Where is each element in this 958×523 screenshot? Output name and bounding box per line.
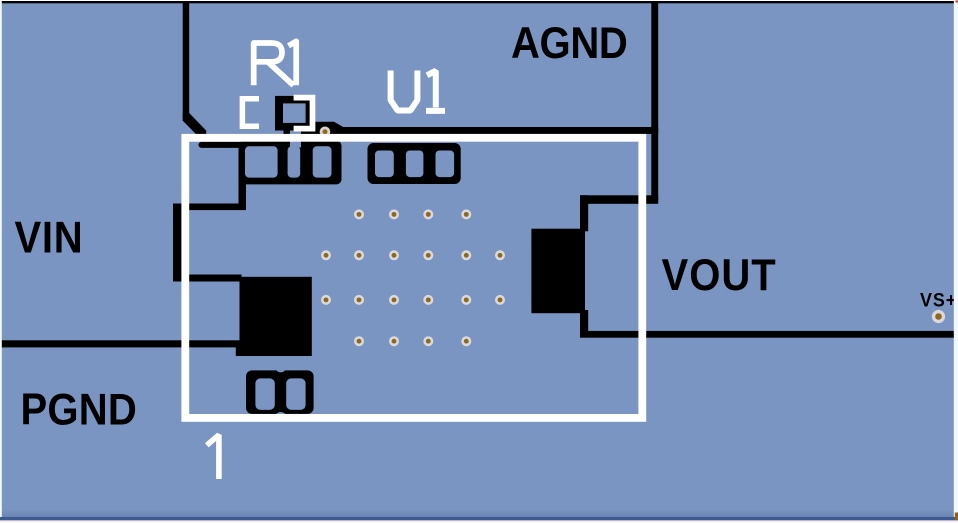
via V4 (thermal grid row 1): [461, 209, 471, 219]
via V19 (thermal grid row 4): [423, 336, 433, 346]
wire: staircase horizontal s5 (VIN channel bottom): [173, 275, 242, 282]
via V18 (thermal grid row 4): [389, 336, 399, 346]
wire: staircase vertical s4: [173, 204, 183, 282]
bottom pink strip: [0, 520, 958, 523]
wire: long gap line D (VIN / PGND separator): [0, 340, 244, 347]
svg-text:VOUT: VOUT: [662, 250, 777, 299]
bottom navy frame line: [0, 517, 958, 520]
svg-text:VIN: VIN: [15, 213, 84, 262]
wire: vertical trace gap B (right of AGND): [651, 2, 658, 201]
label U1 (silkscreen text): [391, 71, 445, 111]
via V14 (thermal grid row 3): [423, 295, 433, 305]
label 1 (silkscreen text, board corner): [207, 435, 219, 479]
wire: horizontal trace gap C (under AGND): [307, 127, 658, 134]
via V6 (thermal grid row 2): [354, 250, 364, 260]
via V1 (thermal grid row 1): [354, 209, 364, 219]
top black bar: [0, 1, 958, 3]
wire: vertical trace gap A (left of AGND): [183, 2, 190, 118]
bottom fade: [0, 509, 958, 518]
via V13 (thermal grid row 3): [389, 295, 399, 305]
wire: VOUT pad top outline: [580, 195, 588, 231]
via V7 (thermal grid row 2): [389, 250, 399, 260]
resistor R1 silkscreen bracket left: [242, 99, 259, 126]
resistor R1 silkscreen bracket right: [294, 98, 313, 129]
svg-text:VS+: VS+: [920, 289, 957, 311]
corner artifact dot (bottom-right, brown): [955, 513, 958, 521]
VIN pad (filled): [240, 277, 312, 356]
resistor R1 pad (black ring): [275, 96, 311, 131]
via V11 (thermal grid row 3): [321, 295, 331, 305]
top white hairline: [0, 0, 958, 1]
right white edge: [954, 0, 958, 517]
capacitor pads at bottom (2 pads): [246, 370, 314, 414]
via V20 (thermal grid row 4): [461, 336, 471, 346]
wire: long gap line E (VOUT separator to right edge): [580, 331, 955, 338]
svg-text:PGND: PGND: [21, 385, 137, 434]
wire: staircase segment s1: [199, 142, 243, 148]
via V9 (thermal grid row 2): [461, 250, 471, 260]
via near R1: [320, 127, 331, 138]
via V16 (thermal grid row 3): [495, 295, 505, 305]
via V12 (thermal grid row 3): [354, 295, 364, 305]
op-amp U1 pad group (3 pads): [368, 143, 461, 184]
left white edge: [0, 0, 2, 517]
via V17 (thermal grid row 4): [354, 336, 364, 346]
svg-text:AGND: AGND: [511, 18, 627, 67]
node: neck between R1 tails: [290, 131, 301, 148]
wire: diagonal bend of trace A: [183, 113, 207, 138]
wire: staircase vertical s2: [239, 142, 247, 210]
label R1 (silkscreen text): [254, 41, 297, 85]
via V8 (thermal grid row 2): [423, 250, 433, 260]
via V3 (thermal grid row 1): [423, 209, 433, 219]
via V2 (thermal grid row 1): [389, 209, 399, 219]
wire: staircase horizontal s3: [173, 204, 246, 211]
corner artifact dot: [956, 1, 958, 3]
board outline silkscreen (white rect): [185, 138, 642, 418]
wire: R1 pad tails to pads below: [284, 127, 291, 143]
wire: VOUT pad bottom outline: [580, 310, 588, 334]
via V5 (thermal grid row 2): [321, 250, 331, 260]
via V10 (thermal grid row 2): [495, 250, 505, 260]
via VS+: [932, 310, 945, 323]
VOUT pad (filled): [531, 229, 585, 314]
pad group under R1 (3 pads): [239, 141, 342, 185]
via V15 (thermal grid row 3): [461, 295, 471, 305]
